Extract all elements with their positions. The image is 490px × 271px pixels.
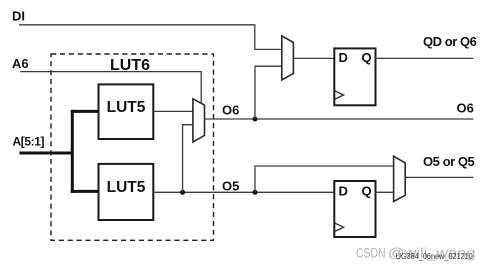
svg-text:UG384_06new_021210: UG384_06new_021210 <box>396 252 474 261</box>
LUT5 lower box <box>99 164 154 220</box>
label O6 at mux output <box>222 103 239 118</box>
svg-text:LUT6: LUT6 <box>110 57 150 74</box>
svg-text:QD or Q6: QD or Q6 <box>423 34 477 49</box>
label figure id UG384_06new_021210 <box>396 252 474 261</box>
svg-text:O5: O5 <box>222 179 239 194</box>
node junction at mux branch <box>180 190 185 195</box>
label O5 or Q5 <box>423 154 475 169</box>
label DI <box>12 9 25 24</box>
wire O6 branch up to top mux <box>255 66 282 119</box>
svg-text:LUT5: LUT5 <box>107 179 146 196</box>
label LUT6 <box>110 57 150 74</box>
svg-text:Q: Q <box>362 50 372 65</box>
wire FF1 Q output <box>376 57 474 59</box>
wire O5 branch to lower mux <box>255 166 394 192</box>
wire A[5:1] trunk vertical (bold) <box>71 110 74 193</box>
mux top (FF input select) <box>282 36 294 80</box>
wire A[5:1] branch to upper LUT5 (bold) <box>71 110 99 113</box>
wire top mux output to FF D <box>293 57 334 59</box>
wire DI input <box>19 25 282 50</box>
svg-text:DI: DI <box>12 9 25 24</box>
wire A[5:1] branch to lower LUT5 (bold) <box>71 190 99 193</box>
wire A6 input <box>20 72 201 104</box>
flip-flop FF1 (top) <box>334 48 375 105</box>
wire O6 net <box>205 118 474 120</box>
wire upper LUT5 output to mux <box>153 110 193 112</box>
svg-text:D: D <box>339 184 348 199</box>
svg-text:A[5:1]: A[5:1] <box>13 135 45 149</box>
svg-text:O6: O6 <box>222 103 239 118</box>
svg-text:D: D <box>339 50 348 65</box>
label QD or Q6 <box>423 34 477 49</box>
flip-flop FF2 (bottom) <box>334 181 375 237</box>
svg-text:Q: Q <box>362 184 372 199</box>
watermark CSDN <box>356 245 476 261</box>
wire branch up to mux lower input <box>183 125 193 193</box>
wire lower LUT5 output / O5 net <box>153 191 334 193</box>
mux bottom right (O5/Q5 select) <box>394 156 406 201</box>
wire A[5:1] bus (bold) <box>20 152 73 155</box>
LUT6 dashed boundary box <box>51 54 214 240</box>
svg-text:O6: O6 <box>457 101 474 116</box>
clock pin triangle FF2 <box>334 223 343 232</box>
LUT5 upper box <box>99 84 154 139</box>
mux A6 select (middle) <box>193 99 205 142</box>
label O6 right <box>457 101 474 116</box>
svg-text:LUT5: LUT5 <box>107 99 146 116</box>
label A6 <box>12 56 29 71</box>
clock pin triangle FF1 <box>334 91 343 100</box>
wire FF2 Q output to lower mux <box>376 191 394 193</box>
svg-text:A6: A6 <box>12 56 29 71</box>
svg-text:CSDN: CSDN <box>356 245 386 261</box>
label A[5:1] <box>13 135 45 149</box>
wire O5 or Q5 output <box>405 176 473 178</box>
node O5 junction <box>253 190 258 195</box>
node O6 junction <box>253 117 258 122</box>
label O5 <box>222 179 239 194</box>
svg-text:O5 or Q5: O5 or Q5 <box>423 154 475 169</box>
